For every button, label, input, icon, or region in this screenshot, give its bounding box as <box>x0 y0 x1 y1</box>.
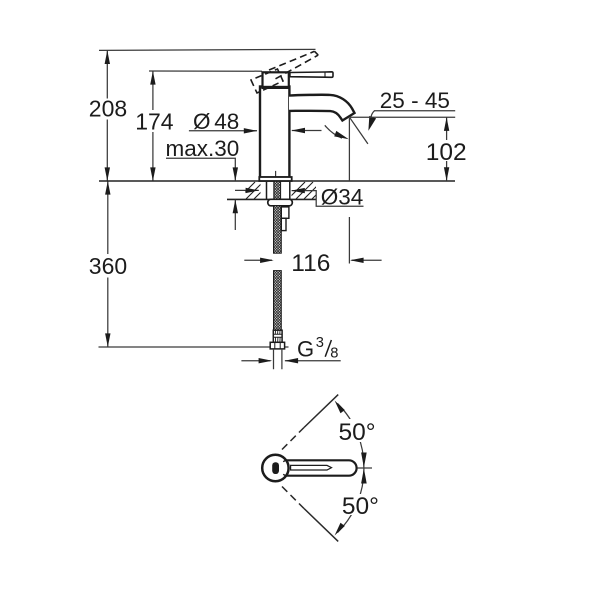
dimension 174 vertical line <box>152 71 154 181</box>
dimension 116 left line with arrow <box>244 259 272 261</box>
upper 50° arc <box>338 404 364 469</box>
dimension 208 top arrow <box>105 50 110 64</box>
hose hex nut <box>270 342 284 349</box>
mounting nut <box>268 199 293 206</box>
lower 50° arc <box>338 468 364 533</box>
solid lever handle <box>290 72 333 78</box>
25-45 leader curve <box>371 111 375 123</box>
max.30 lower arrow line (to counter bottom) <box>234 200 236 230</box>
G3/8 left leader with arrow <box>241 360 270 362</box>
spout tip extension vertical line <box>348 118 350 181</box>
top view handle <box>277 460 357 475</box>
hose braid lower section <box>274 271 282 331</box>
dimension 102 vertical line <box>446 117 448 181</box>
hose ferrule <box>273 330 282 342</box>
circle edge dashes <box>283 460 285 475</box>
dashed raised lever (cap outline) <box>251 69 283 93</box>
svg-text:174: 174 <box>135 109 174 135</box>
top view center line <box>358 467 373 469</box>
svg-text:102: 102 <box>426 139 467 166</box>
Ø48 right leader with arrow <box>292 130 322 132</box>
G3/8 right leader with arrow <box>285 360 341 362</box>
dimension 360 bottom arrow <box>105 333 110 347</box>
faucet body <box>260 87 289 178</box>
svg-text:3: 3 <box>316 335 324 351</box>
top view handle slot <box>291 465 332 470</box>
lower arc white gap for text <box>340 494 380 515</box>
extension line top (208 reference) <box>99 49 316 50</box>
25-45 leader arrow <box>368 116 376 131</box>
max.30 lower arrow <box>233 200 238 214</box>
Ø34 left leader with arrow <box>235 189 259 191</box>
lower arc bottom arrow <box>335 523 345 536</box>
swivel arc arrow <box>325 125 342 138</box>
Ø48 left leader with arrow <box>189 130 257 132</box>
svg-text:360: 360 <box>89 253 127 279</box>
base flange <box>259 177 291 181</box>
dimension 360 vertical line <box>107 181 109 347</box>
dashed raised lever tip <box>315 51 319 55</box>
svg-text:208: 208 <box>89 95 127 121</box>
25-45 underline <box>374 110 455 112</box>
top view cartridge pill <box>272 462 279 474</box>
Ø34 right leader with arrow and underline <box>292 191 364 207</box>
dimension 102 top arrow <box>444 117 449 131</box>
svg-text:116: 116 <box>291 250 330 277</box>
dimension 116 right line with arrow <box>352 259 382 261</box>
lower arc top arrow <box>361 468 367 483</box>
hose end reference line (360 bottom) <box>99 346 289 348</box>
max.30 leader arrow (to counter top) <box>233 167 238 181</box>
aerator level line <box>349 116 455 118</box>
dimension 102 bottom arrow <box>444 167 449 181</box>
116 right extension line <box>348 217 350 264</box>
svg-text:8: 8 <box>330 345 338 361</box>
top view body circle <box>262 455 288 481</box>
dimension 174 bottom arrow <box>150 167 155 181</box>
svg-text:50°: 50° <box>342 493 379 520</box>
upper arc bottom arrow <box>361 453 367 468</box>
max.30 leader underline <box>166 158 235 181</box>
dimension 208 vertical line <box>106 50 108 181</box>
upper arc white gap for text <box>338 419 378 442</box>
cap bottom thick line <box>261 86 290 89</box>
mounting stud <box>281 207 289 218</box>
dashed raised lever (handle lines) <box>269 51 315 70</box>
lower 50° ray dashed <box>282 487 304 509</box>
dimension 360 top arrow <box>105 181 110 195</box>
shank outer lines through counter <box>267 182 290 199</box>
dimension 208 bottom arrow <box>105 167 110 181</box>
svg-text:max.30: max.30 <box>166 136 240 161</box>
G3/8 tube <box>274 349 282 369</box>
counter hatching right <box>288 182 329 199</box>
faucet cap (top housing) <box>263 72 289 87</box>
spout <box>289 95 355 121</box>
svg-text:G: G <box>297 337 314 362</box>
lower 50° ray solid <box>304 509 338 542</box>
counter hatching left <box>238 182 271 199</box>
upper arc top arrow <box>335 401 345 414</box>
upper 50° ray dashed <box>282 428 304 450</box>
svg-text:25 - 45: 25 - 45 <box>380 88 450 113</box>
hose braid upper section <box>274 206 282 253</box>
counter section bottom line <box>227 198 316 200</box>
countertop line <box>99 180 455 182</box>
aerator axis diagonal line <box>350 118 368 144</box>
lever blade tick <box>324 72 326 77</box>
dimension 174 top arrow <box>150 71 155 85</box>
body centerline <box>275 171 277 181</box>
svg-text:50°: 50° <box>339 419 376 446</box>
svg-text:Ø34: Ø34 <box>321 184 364 209</box>
extension line 174 reference <box>149 70 262 72</box>
shank threaded braid section <box>274 181 281 199</box>
upper 50° ray solid <box>304 395 338 428</box>
